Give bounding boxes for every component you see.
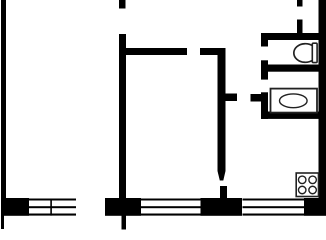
- closet wall stub at top edge: [297, 0, 303, 7]
- kitchen wall stub, right piece: [251, 94, 269, 102]
- window 1 band: [29, 199, 76, 216]
- right exterior wall: [319, 0, 326, 215]
- wall between bathroom and kitchen: [261, 112, 319, 119]
- bottom wall block far left: [1, 198, 29, 216]
- stove outline: [296, 173, 318, 197]
- left exterior wall: [1, 0, 6, 215]
- window 2 band: [141, 199, 201, 216]
- toilet tank: [312, 43, 317, 62]
- wall between left room and hallway/centre room: [119, 34, 126, 198]
- wall between WC and bathroom: [261, 65, 319, 72]
- balcony side wall right: [122, 215, 127, 230]
- door-side stub above bottom wall (centre/kitchen wall): [220, 186, 227, 200]
- bottom wall block far right: [304, 198, 326, 216]
- bottom wall block between balcony door and window 2: [105, 198, 141, 216]
- tapered lower tip of centre/kitchen wall: [218, 171, 226, 181]
- wall between centre room and kitchen corridor: [218, 48, 226, 171]
- bathtub outline: [271, 89, 318, 113]
- toilet bowl: [294, 44, 313, 63]
- bathtub basin ellipse: [280, 94, 308, 108]
- corridor/bathroom wall, lower segment: [261, 92, 268, 119]
- top wall stub above left-room door: [119, 0, 126, 9]
- corridor/WC wall, middle segment: [261, 60, 268, 79]
- balcony side wall left: [1, 215, 4, 229]
- bottom wall block between window 2 and window 3: [201, 198, 243, 216]
- window 3 band: [243, 199, 305, 216]
- hallway/centre-room wall, left segment: [119, 48, 187, 55]
- kitchen wall stub, left piece: [226, 94, 238, 102]
- closet wall lower segment: [297, 20, 303, 41]
- window 1 centre divider: [50, 199, 52, 216]
- stove burner top-left: [298, 176, 306, 184]
- corridor/WC wall, top segment: [261, 33, 268, 47]
- stove burner bottom-right: [309, 186, 317, 194]
- stove burner bottom-left: [298, 186, 306, 194]
- stove burner top-right: [309, 176, 317, 184]
- hallway/centre-room wall, right segment: [200, 48, 226, 55]
- WC top wall: [261, 33, 319, 40]
